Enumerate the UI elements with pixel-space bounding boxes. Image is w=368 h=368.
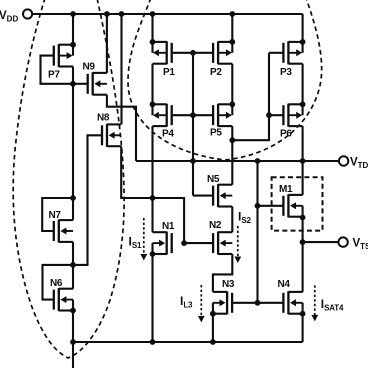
- svg-text:M1: M1: [279, 184, 293, 195]
- junction left col / N7 wrap: [70, 195, 76, 201]
- transistor N3: [213, 279, 235, 314]
- wire VTS to N4 drain: [302, 242, 304, 292]
- svg-text:N3: N3: [222, 279, 235, 290]
- net VTD label: [350, 157, 368, 171]
- current IS1 label: [129, 235, 142, 251]
- junction N8 source wire / N1 drain: [150, 195, 156, 201]
- wire P6 drain to VTD: [302, 126, 304, 161]
- wire P5 drain down: [231, 126, 233, 185]
- svg-text:P1: P1: [163, 67, 175, 78]
- junction rail-P1: [150, 11, 156, 17]
- junction P1 source: [150, 39, 156, 45]
- junction bottom rail N3: [210, 339, 216, 345]
- transistor P1: [153, 41, 176, 78]
- wire N8 source: [121, 146, 184, 243]
- wire N4 source to rail: [302, 314, 304, 342]
- svg-text:N7: N7: [49, 210, 62, 221]
- wire VTD to M1 drain: [302, 161, 304, 195]
- wire P7 gate wrap: [41, 56, 74, 84]
- node VTD terminal: [339, 156, 348, 165]
- junction N7 source / N6 drain: [70, 262, 76, 268]
- current ISAT4 label: [321, 297, 344, 313]
- transistor N6: [50, 278, 73, 311]
- transistor P5: [210, 104, 232, 139]
- wire P4 drain down: [151, 126, 153, 232]
- junction N4 source: [300, 311, 306, 317]
- transistor N7: [49, 210, 74, 243]
- transistor N8: [97, 113, 121, 147]
- wire N1 source to rail: [151, 254, 153, 342]
- junction M1 source: [300, 215, 306, 221]
- wire P7 drain: [72, 67, 74, 84]
- wire P1 drain to P4: [151, 64, 153, 105]
- svg-text:N4: N4: [278, 279, 291, 290]
- wire N2 source to N3: [213, 254, 232, 292]
- wire N3 gate lead: [232, 302, 257, 304]
- current IL3 arrow: [198, 285, 205, 322]
- wire left column below rail: [72, 342, 74, 368]
- transistor P6: [280, 104, 303, 140]
- junction P7 source: [70, 42, 76, 48]
- junction bottom rail left: [70, 339, 76, 345]
- junction bottom rail N1: [150, 339, 156, 345]
- svg-text:P3: P3: [280, 67, 292, 78]
- wire left column mid: [72, 84, 74, 220]
- svg-text:P5: P5: [210, 128, 222, 139]
- net VTS label: [353, 238, 368, 252]
- svg-text:N8: N8: [97, 113, 110, 124]
- junction N3 source: [210, 311, 216, 317]
- wire N5 source to N2: [231, 207, 233, 233]
- wire P3P6 gate bus: [232, 53, 269, 140]
- transistor N1: [153, 221, 175, 255]
- wire N6 source to rail: [72, 311, 74, 343]
- wire M1 source to VTS: [302, 218, 304, 243]
- wire rail to N8 drain: [120, 14, 122, 124]
- wire N5 gate lead: [193, 195, 213, 197]
- transistor N2: [209, 220, 232, 255]
- wire P2 gate lead: [193, 52, 213, 54]
- node VDD terminal: [23, 9, 32, 18]
- wire bottom rail: [73, 341, 303, 343]
- wire N6 drain: [72, 265, 74, 289]
- junction P5 source: [229, 101, 235, 107]
- dashed box M1: [272, 177, 323, 230]
- junction rail-N9: [104, 11, 110, 17]
- junction P6 gate: [266, 112, 272, 118]
- current IS2 arrow: [234, 226, 241, 263]
- wire P6 gate lead: [269, 114, 283, 116]
- wire N3 source to rail: [212, 314, 214, 342]
- wire VTD to N3N4 gates: [256, 161, 258, 303]
- transistor M1: [279, 184, 303, 217]
- current IL3 label: [180, 294, 193, 310]
- svg-text:P2: P2: [210, 67, 222, 78]
- wire P2 drain to P5: [231, 64, 233, 105]
- current IS2 label: [238, 210, 251, 226]
- junction gate bus row1: [190, 50, 196, 56]
- wire N2 gate lead: [184, 242, 213, 244]
- wire rail to P1: [151, 14, 153, 42]
- wire N4 gate lead: [258, 302, 284, 304]
- junction M1 gate: [255, 203, 261, 209]
- svg-text:N6: N6: [50, 278, 63, 289]
- junction gate bus row2: [190, 112, 196, 118]
- wire rail to P2: [231, 14, 233, 42]
- junction P7 drain / N9 gate: [70, 81, 76, 87]
- wire rail corner to P3: [302, 14, 304, 42]
- junction N1 source: [150, 251, 156, 257]
- wire N9 source: [107, 95, 136, 161]
- wire N7 source to N6: [72, 242, 74, 265]
- wire VDD rail: [32, 13, 302, 15]
- svg-text:P6: P6: [280, 129, 292, 140]
- net VDD label: [0, 10, 18, 24]
- transistor N9: [83, 62, 107, 96]
- svg-text:N2: N2: [209, 220, 222, 231]
- junction P3 source: [300, 39, 306, 45]
- svg-text:N5: N5: [207, 174, 220, 185]
- junction VTD M1 drain: [300, 158, 306, 164]
- junction N3N4 gate: [255, 300, 261, 306]
- junction N6 source: [70, 308, 76, 314]
- junction rail-P7: [70, 11, 76, 17]
- wire P5 gate lead: [193, 114, 213, 116]
- junction VTD gate feed: [255, 158, 261, 164]
- node VTS terminal: [338, 237, 347, 246]
- junction N1N2 gate: [181, 240, 187, 246]
- wire P4 gate lead: [172, 114, 193, 116]
- wire M1 gate lead: [258, 205, 284, 207]
- svg-text:N1: N1: [162, 221, 175, 232]
- transistor P7: [48, 44, 73, 80]
- current IS1 arrow: [140, 218, 147, 261]
- junction P2 source: [229, 39, 235, 45]
- transistor N4: [278, 279, 303, 314]
- wire P3 gate lead: [269, 52, 283, 54]
- svg-text:P7: P7: [48, 70, 60, 81]
- wire P1 gate lead: [172, 52, 193, 54]
- wire VTS: [303, 241, 339, 243]
- junction P5 drain / P3P6 gate: [229, 137, 235, 143]
- junction P6 source: [300, 101, 306, 107]
- wire N9 gate: [73, 83, 88, 85]
- current ISAT4 arrow: [311, 285, 318, 321]
- dashed ellipse left group: [13, 0, 124, 358]
- junction rail-N8col: [119, 11, 125, 17]
- wire P1P2P4P5N5 gate bus: [192, 53, 194, 196]
- wire rail to P7 source: [72, 14, 74, 45]
- transistor N5: [207, 174, 232, 207]
- junction P4 source: [150, 101, 156, 107]
- wire VTD: [136, 160, 339, 162]
- junction gate bus VTD: [190, 158, 196, 164]
- wire N6 gate wrap: [43, 265, 74, 300]
- dashed ellipse P group: [128, 0, 322, 160]
- svg-text:P4: P4: [162, 129, 174, 140]
- svg-text:N9: N9: [83, 62, 96, 73]
- transistor P3: [280, 41, 303, 78]
- wire N9 drain to rail: [106, 14, 108, 73]
- transistor P4: [153, 104, 175, 140]
- junction VTS: [300, 239, 306, 245]
- wire P3 drain to P6: [302, 64, 304, 105]
- wire N8 gate wrap: [73, 135, 102, 265]
- transistor P2: [210, 41, 232, 78]
- junction rail-P2: [229, 11, 235, 17]
- wire N7 gate wrap: [42, 198, 73, 231]
